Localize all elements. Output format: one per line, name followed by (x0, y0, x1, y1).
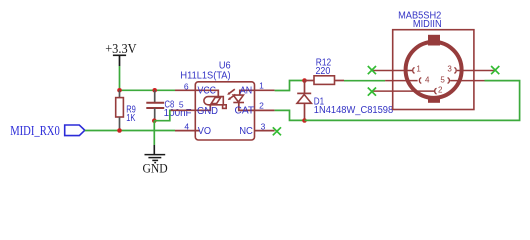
no-connect X on DIN pin 2 (368, 88, 376, 96)
wire D1 bottom to DIN pin 5 (305, 81, 520, 121)
svg-text:H11L1S(TA): H11L1S(TA) (180, 70, 230, 81)
DIN pin 5 (440, 76, 484, 85)
svg-text:1: 1 (416, 65, 421, 74)
svg-text:GND: GND (143, 161, 168, 176)
resistor R12 (305, 76, 345, 85)
U6 pin 5 GND (171, 100, 218, 118)
U6 schmitt trigger detector (204, 97, 226, 109)
net flag MIDI_RX0 (10, 123, 85, 138)
DIN pin 4 (385, 76, 430, 85)
junction at C8 top (152, 88, 157, 93)
DIN pin 3 (447, 65, 495, 74)
svg-text:5: 5 (440, 76, 445, 85)
wire C8 bottom to ground (153, 121, 155, 145)
U6 pin 1 AN (240, 81, 275, 97)
connector bottom notch (428, 98, 440, 103)
optocoupler U6 body (195, 82, 254, 140)
junction at C8 bottom (152, 118, 157, 123)
wire C8 bottom to U6 GND pin (154, 110, 173, 120)
svg-text:1K: 1K (126, 113, 135, 124)
power flag +3.3V (105, 42, 136, 66)
svg-text:2: 2 (438, 85, 443, 94)
svg-text:220: 220 (316, 66, 331, 77)
svg-text:4: 4 (425, 76, 430, 85)
resistor R9 (116, 90, 124, 130)
svg-text:5: 5 (179, 100, 184, 110)
U6 LED emitter (227, 89, 244, 102)
svg-text:3: 3 (261, 121, 266, 131)
svg-text:6: 6 (184, 81, 189, 91)
connector top notch (428, 35, 440, 46)
svg-text:1N4148W_C81598: 1N4148W_C81598 (314, 105, 394, 116)
DIN pin 2 (372, 85, 443, 94)
U6 pin 4 VO (175, 122, 211, 137)
U6 pin 6 VCC (175, 81, 218, 96)
wire U6 pin 1 to D1/R12 node (275, 81, 305, 91)
svg-text:3: 3 (447, 65, 452, 74)
no-connect X on U6 pin 3 (273, 127, 281, 135)
capacitor C8 (146, 90, 164, 120)
diode D1 (297, 81, 311, 121)
ground symbol GND (143, 145, 168, 176)
wire MIDI_RX0 to U6 VO (85, 130, 175, 132)
junction at R9 bottom (117, 128, 122, 133)
wire U6 pin 2 to D1 bottom (275, 110, 305, 120)
svg-text:NC: NC (239, 126, 253, 137)
svg-text:CAT: CAT (235, 106, 255, 117)
connector MIDIIN body (393, 30, 474, 110)
junction at D1 top (302, 78, 307, 83)
svg-text:GND: GND (197, 106, 218, 117)
no-connect X on DIN pin 3 (491, 66, 499, 74)
wire +3.3V stem (119, 66, 121, 90)
svg-text:VO: VO (198, 126, 211, 137)
wire +3.3V rail to U6 VCC (120, 89, 176, 91)
DIN pin 1 (372, 65, 421, 74)
junction at D1 bottom (302, 118, 307, 123)
svg-text:MIDI_RX0: MIDI_RX0 (10, 123, 60, 138)
svg-text:2: 2 (259, 101, 264, 111)
U6 pin 2 CAT (235, 101, 275, 117)
svg-text:MIDIIN: MIDIIN (413, 19, 442, 30)
connector DIN circle (406, 42, 462, 98)
svg-text:VCC: VCC (198, 86, 217, 97)
svg-text:4: 4 (184, 122, 189, 132)
svg-text:1: 1 (259, 81, 264, 91)
junction at R9 top (117, 88, 122, 93)
U6 pin 3 NC (239, 121, 274, 136)
no-connect X on DIN pin 1 (368, 66, 376, 74)
wire R12 to DIN pin 4 (344, 80, 385, 82)
